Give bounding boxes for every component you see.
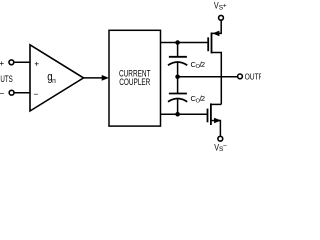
wire coupler to bottom gate [161, 113, 208, 115]
wire C1 to output node [177, 63, 179, 77]
svg-text:m: m [52, 76, 55, 85]
wire IN- to op-amp [14, 92, 30, 94]
svg-text:/2: /2 [200, 94, 206, 103]
Q1 source arrow (points into channel, P-channel) [212, 31, 219, 37]
wire IN+ to op-amp [14, 61, 31, 63]
Q1 drain lead [212, 53, 222, 105]
terminal IN+ [9, 60, 14, 65]
wire top node to capacitor C1 [177, 43, 179, 57]
capacitor C1 CO/2 top plate [169, 56, 187, 58]
wire C2 to bottom node [177, 99, 179, 114]
Q2 source lead [211, 121, 221, 136]
transistor Q1 PMOS gate bar [207, 37, 209, 51]
svg-text:/2: /2 [200, 60, 206, 69]
wire coupler to top gate [161, 42, 209, 44]
terminal VS+ [219, 15, 224, 20]
capacitor C2 CO/2 top plate [169, 93, 187, 95]
svg-text:−: − [33, 89, 38, 99]
transistor Q2 NMOS gate bar [207, 109, 209, 123]
terminal IN- [9, 90, 14, 95]
junction dot bottom gate node [175, 112, 180, 117]
junction dot output mid node [175, 75, 180, 80]
wire op-amp output to coupler [84, 77, 105, 79]
svg-text:UTS: UTS [0, 74, 12, 85]
Q1 source lead [212, 21, 222, 34]
junction dot top gate node [175, 40, 180, 45]
svg-text:+: + [0, 58, 4, 68]
svg-text:OUTPUT: OUTPUT [245, 71, 261, 81]
capacitor C1 CO/2 curved plate [168, 62, 187, 65]
svg-text:−: − [223, 143, 227, 150]
wire output node to OUT terminal [178, 76, 238, 78]
capacitor C2 CO/2 curved plate [168, 99, 187, 102]
svg-text:+: + [34, 58, 39, 68]
terminal VS- [218, 136, 223, 141]
op-amp U1 gm transconductance stage [30, 45, 84, 111]
svg-text:−: − [0, 89, 4, 99]
arrow into current coupler [102, 75, 109, 81]
Q2 source arrow (points away from channel, N-channel) [214, 118, 221, 124]
wire output node to capacitor C2 [177, 77, 179, 94]
Q2 drain lead [211, 103, 221, 105]
terminal OUT [238, 74, 243, 79]
block current coupler [109, 30, 161, 126]
transistor Q1 channel bar [211, 33, 213, 54]
transistor Q2 channel bar [210, 103, 212, 125]
svg-text:+: + [223, 2, 227, 9]
svg-text:COUPLER: COUPLER [119, 77, 150, 87]
